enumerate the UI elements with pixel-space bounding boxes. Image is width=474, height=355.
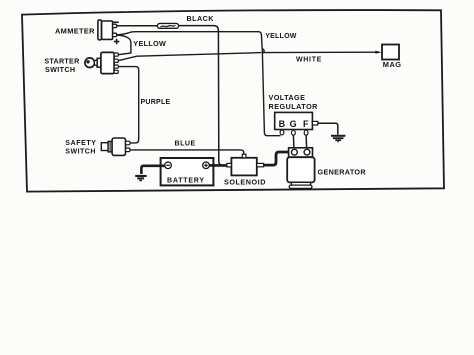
svg-text:F: F xyxy=(303,119,309,129)
svg-text:GENERATOR: GENERATOR xyxy=(318,167,367,176)
svg-text:REGULATOR: REGULATOR xyxy=(269,102,319,111)
svg-text:BATTERY: BATTERY xyxy=(167,177,205,184)
ammeter meter body xyxy=(98,20,117,40)
ground (battery) xyxy=(135,175,146,181)
magneto MAG xyxy=(382,45,399,60)
wire: regulator G to generator xyxy=(292,135,295,150)
arrowhead at MAG xyxy=(375,51,382,54)
svg-text:BLACK: BLACK xyxy=(187,14,215,23)
wire thick: battery minus to ground xyxy=(141,166,164,174)
frame border xyxy=(22,10,444,192)
svg-text:SWITCH: SWITCH xyxy=(65,148,96,155)
wire thick: solenoid to generator xyxy=(264,152,291,165)
wire purple: starter bottom terminal down to safety switch xyxy=(118,67,138,143)
junction bump xyxy=(262,49,264,54)
minus mark xyxy=(114,21,119,23)
svg-text:SOLENOID: SOLENOID xyxy=(224,177,266,186)
svg-text:BLUE: BLUE xyxy=(175,140,196,147)
wire white: junction to MAG xyxy=(263,51,376,53)
ground (regulator) xyxy=(331,135,345,143)
fuse F1 xyxy=(157,23,178,28)
wire: ammeter plus down to starter switch top terminal xyxy=(117,35,131,55)
voltage regulator VR1 xyxy=(275,112,318,135)
svg-text:PURPLE: PURPLE xyxy=(141,99,171,106)
wire black: ammeter minus to fuse to vertical drop xyxy=(117,26,223,166)
wire: regulator to right ground xyxy=(318,123,338,135)
svg-text:G: G xyxy=(290,119,297,129)
starter switch S1 xyxy=(85,52,118,73)
plus mark xyxy=(114,39,120,45)
svg-text:AMMETER: AMMETER xyxy=(55,26,95,35)
svg-text:SAFETY: SAFETY xyxy=(65,140,96,147)
wire yellow: ammeter plus diagonal to horizontal then down to regulator B xyxy=(117,32,281,136)
wire thick: battery plus to solenoid xyxy=(209,164,227,167)
svg-text:WHITE: WHITE xyxy=(296,57,322,64)
safety switch S2 xyxy=(101,138,130,155)
wire: regulator F to generator xyxy=(305,135,308,150)
svg-text:B: B xyxy=(279,119,286,129)
battery BT1 xyxy=(161,158,214,185)
svg-text:STARTER: STARTER xyxy=(44,56,80,65)
wire blue: safety switch to solenoid top xyxy=(130,150,244,155)
wire yellow long: starter middle terminal to white wire junction xyxy=(118,53,261,61)
svg-text:YELLOW: YELLOW xyxy=(133,39,166,48)
svg-text:SWITCH: SWITCH xyxy=(45,65,75,74)
solenoid K1 xyxy=(227,154,264,175)
svg-text:MAG: MAG xyxy=(383,60,402,69)
svg-text:VOLTAGE: VOLTAGE xyxy=(269,93,306,102)
svg-text:YELLOW: YELLOW xyxy=(265,33,297,40)
generator G1 xyxy=(287,148,314,189)
